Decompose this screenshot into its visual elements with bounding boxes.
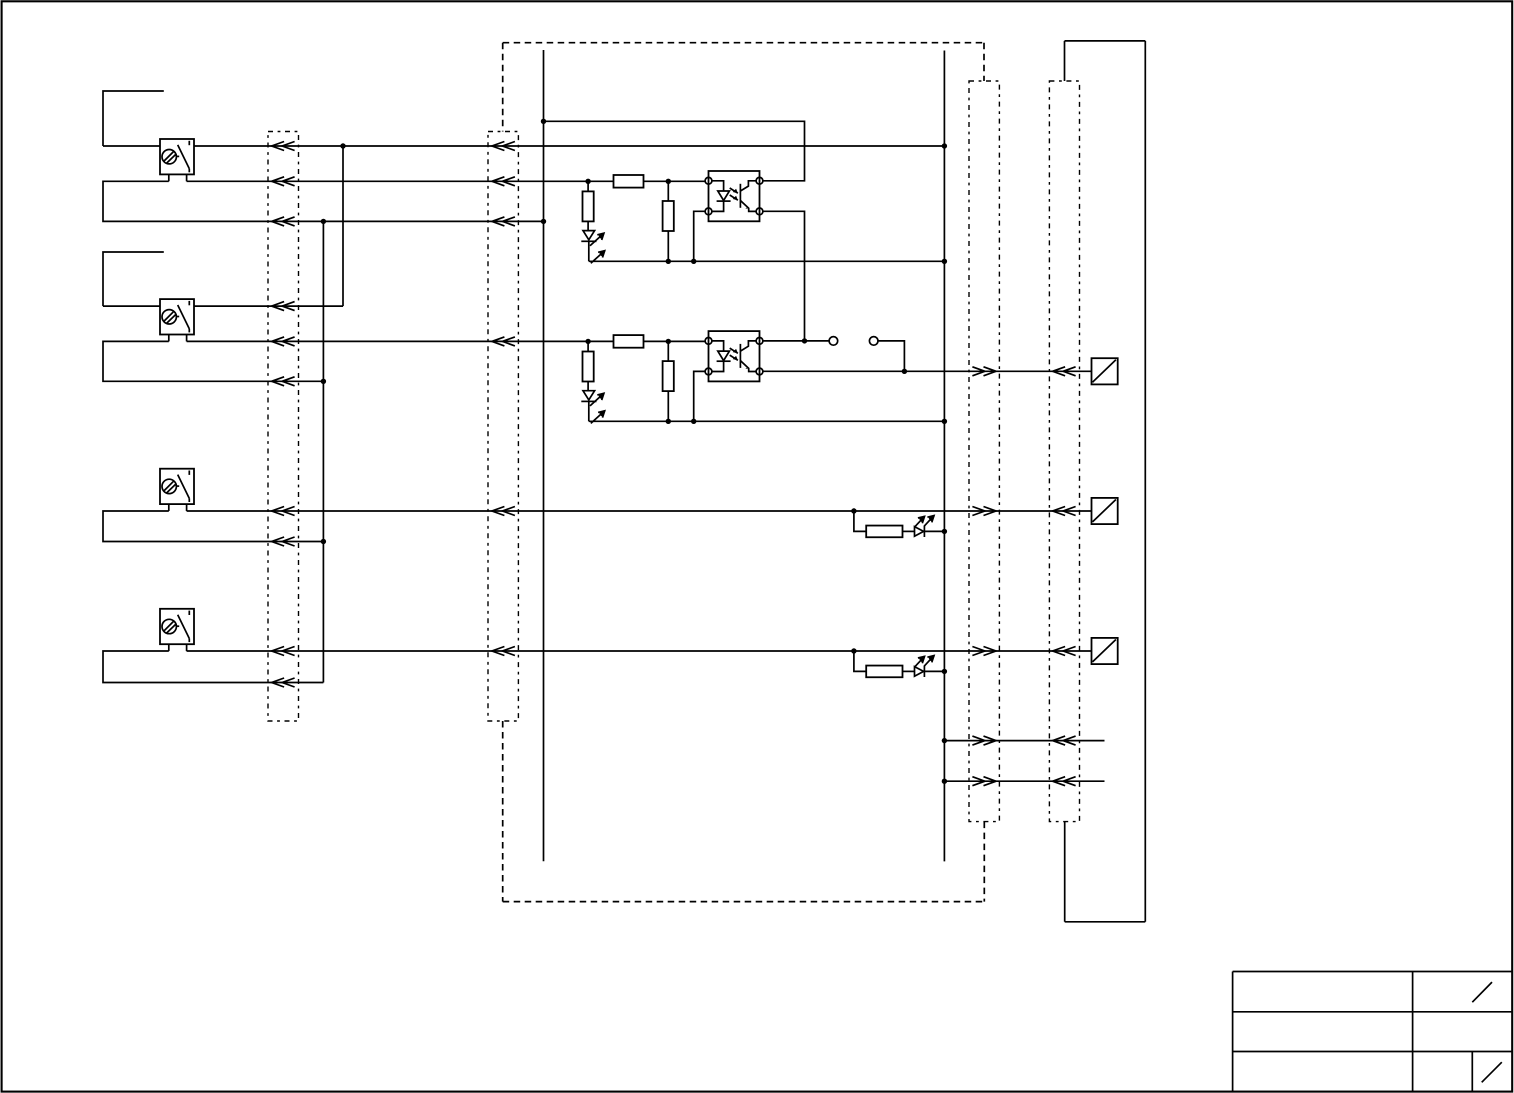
valve terminal housing (solid outline) [1065, 41, 1146, 922]
node (junction) [691, 259, 696, 264]
wire (U1 emitter return) [694, 211, 705, 261]
wire [667, 341, 669, 361]
node (junction at 0V bus) [942, 259, 947, 264]
proximity switch B2 [160, 299, 194, 341]
wire (supply link down to B2) [342, 146, 344, 306]
node (junction on +rail) [340, 143, 345, 148]
wire [667, 231, 669, 261]
node (junction) [666, 259, 671, 264]
wire (B1 output, +24V rail to valve unit) [194, 145, 944, 147]
wire (B1 signal to opto input) [187, 180, 588, 182]
resistor R4 (series) [614, 335, 644, 348]
terminal strip X2 (dashed) [488, 132, 518, 722]
0V bus (vertical line) [943, 51, 945, 862]
LED D4 + resistor R8 (output indicator ch4) [851, 648, 947, 677]
wire [668, 180, 705, 182]
node (junction at 24V bus) [541, 219, 546, 224]
valve solenoid Y1 [1092, 358, 1118, 384]
resistor R2 (LED shunt) [583, 191, 594, 221]
proximity switch B1 [160, 139, 194, 181]
node (junction at 0V bus) [942, 419, 947, 424]
connector arrows [272, 647, 295, 656]
connector arrows [1053, 736, 1076, 745]
connector arrows [272, 337, 295, 346]
valve solenoid Y3 [1092, 638, 1118, 664]
wire [668, 340, 705, 342]
wire [588, 241, 590, 261]
connector arrows [492, 217, 515, 226]
proximity switch B4 [160, 609, 194, 651]
resistor R5 (LED shunt) [583, 352, 594, 382]
wire [644, 340, 669, 342]
node (junction) [802, 338, 807, 343]
wire (test link to output) [878, 341, 904, 371]
connector arrows [272, 537, 295, 546]
24V bus (vertical line) [543, 50, 545, 861]
wire (U1 out to test link) [763, 340, 829, 342]
wire (24V to U1 collector) [544, 121, 805, 181]
terminal strip X1 (dashed) [268, 132, 299, 722]
connector arrows [272, 142, 295, 151]
node (input junction) [585, 339, 590, 344]
wire [667, 181, 669, 201]
node (junction on minus link) [321, 379, 326, 384]
test terminal (open circle) [869, 337, 878, 346]
wire [587, 382, 589, 391]
wire (common return to valve unit) [944, 780, 1104, 782]
connector arrows [1053, 507, 1076, 516]
node (input junction) [585, 179, 590, 184]
valve solenoid Y2 [1092, 498, 1118, 524]
wire (B3 tab loop) [103, 511, 323, 542]
wire (B1 supply bracket) [103, 91, 164, 146]
wire [644, 180, 669, 182]
wire (B2 pin1 to terminal) [103, 305, 160, 307]
connector arrows [272, 217, 295, 226]
optocoupler U1 [705, 171, 763, 221]
wire (B2 tab loop) [103, 341, 323, 381]
wire (minus link bus, vertical) [322, 221, 324, 682]
wire (B2 signal to opto2 input) [187, 340, 588, 342]
wire (B1 tab loop) [103, 181, 544, 221]
connector arrows [1053, 647, 1076, 656]
connector arrows [272, 678, 295, 687]
connector arrows [1053, 777, 1076, 786]
wire (U2 output to valve 1) [763, 370, 1092, 372]
node (junction at 0V bus) [942, 143, 947, 148]
plug strip X3 (dashed) [969, 81, 999, 822]
LED D1 (input indicator) [581, 231, 604, 264]
node (junction) [666, 339, 671, 344]
connector arrows [972, 736, 996, 745]
title block [1233, 972, 1513, 1092]
wire [587, 341, 589, 351]
wire (B3 output to valve 2) [187, 510, 1092, 512]
connector arrows [972, 507, 996, 516]
wire (B4 tab loop) [103, 651, 323, 683]
LED D3 + resistor R7 (output indicator ch3) [851, 508, 947, 537]
optocoupler U2 [705, 331, 763, 381]
connector arrows [272, 377, 295, 386]
wire [588, 401, 590, 421]
node (junction at 24V bus) [541, 119, 546, 124]
connector arrows [272, 507, 295, 516]
plug strip X4 (dashed) [1049, 81, 1079, 822]
wire (B1 pin1 to terminal) [103, 145, 160, 147]
connector arrows [492, 177, 515, 186]
wire [587, 221, 589, 230]
connector arrows [972, 777, 996, 786]
connector arrows [972, 647, 996, 656]
connector arrows [272, 177, 295, 186]
node (junction at 0V bus) [942, 779, 947, 784]
connector arrows [1053, 367, 1076, 376]
connector arrows [272, 302, 295, 311]
wire (B2 supply bracket) [103, 252, 164, 306]
title block slash (sheet) [1482, 1062, 1502, 1082]
test terminal (open circle) [829, 337, 838, 346]
LED D2 (input indicator) [581, 391, 604, 424]
node (junction) [691, 419, 696, 424]
wire [667, 391, 669, 421]
connector arrows [492, 647, 515, 656]
title block slash (revision) [1472, 982, 1492, 1002]
connector arrows [492, 507, 515, 516]
connector arrows [492, 337, 515, 346]
node (junction on minus link) [321, 539, 326, 544]
node (junction at 0V bus) [942, 738, 947, 743]
wire [587, 181, 589, 191]
proximity switch B3 [160, 469, 194, 511]
wire (common return to valve unit) [944, 740, 1104, 742]
resistor R1 (series) [614, 175, 644, 188]
wire [588, 340, 613, 342]
connector arrows [492, 142, 515, 151]
wire (B2 supply from link) [194, 305, 343, 307]
node (junction minus-bus link) [321, 219, 326, 224]
node (junction) [666, 179, 671, 184]
wire (B4 output to valve 3) [187, 650, 1092, 652]
wire (0V return rail ch2) [589, 420, 945, 422]
connector arrows [972, 367, 996, 376]
wire (U1 output down to ch2) [763, 211, 805, 341]
control unit enclosure (dashed outline) [503, 43, 985, 902]
resistor R6 (shunt) [663, 361, 674, 391]
node (junction) [902, 369, 907, 374]
wire (0V return rail ch1) [589, 260, 945, 262]
resistor R3 (shunt) [663, 201, 674, 231]
wire (U2 emitter return) [694, 371, 705, 421]
wire [588, 180, 613, 182]
node (junction) [666, 419, 671, 424]
